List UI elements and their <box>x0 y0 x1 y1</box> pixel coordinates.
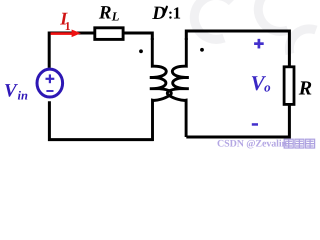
transformer dot primary <box>139 49 143 53</box>
label + (Vo polarity) <box>254 39 264 49</box>
svg-text:in: in <box>18 89 28 103</box>
svg-text:R: R <box>298 78 312 100</box>
wire: left vertical (top part) and top-left horizontal to RL <box>49 33 94 68</box>
wire: RL right side to transformer primary top corner <box>124 33 152 40</box>
svg-text:L: L <box>111 9 120 23</box>
wire: secondary top to right vertical down to R <box>186 31 289 67</box>
wire: source bottom, bottom-left horizontal <box>49 101 153 139</box>
svg-text:1: 1 <box>65 19 71 33</box>
svg-text:V: V <box>4 80 18 101</box>
transformer dot secondary <box>200 48 204 52</box>
wire: R bottom to bottom-right horizontal to secondary <box>186 106 289 138</box>
svg-text:o: o <box>264 79 271 94</box>
current arrow I1 <box>51 30 81 38</box>
svg-text:CSDN @Zevalin: CSDN @Zevalin <box>217 138 287 149</box>
transformer T1 secondary winding (with leads) <box>167 38 188 137</box>
label - (Vo polarity) <box>252 123 258 126</box>
svg-text:D: D <box>151 3 166 24</box>
svg-text:R: R <box>98 3 112 24</box>
resistor RL <box>95 28 123 40</box>
watermark CSDN @Zevalin <box>217 138 315 149</box>
source Vin (circle with plus/minus) <box>37 69 63 97</box>
faint CSDN background watermark <box>194 0 316 54</box>
svg-text:1: 1 <box>173 4 181 23</box>
transformer T1 primary winding (with leads) <box>150 38 171 141</box>
resistor R <box>284 67 294 105</box>
